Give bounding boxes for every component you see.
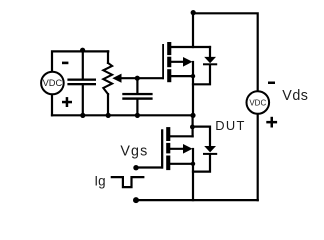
wire bottom rail xyxy=(136,199,258,201)
diode D2 leads xyxy=(193,127,210,146)
svg-text:Vds: Vds xyxy=(282,88,308,104)
transistor Q1 channel bar xyxy=(167,42,171,55)
transistor DUT gate plate xyxy=(161,130,163,169)
node Ig return dot xyxy=(133,197,139,203)
svg-text:Vgs: Vgs xyxy=(120,143,148,159)
transistor Q1 body arrow xyxy=(183,57,193,67)
junction dot bus / R1 xyxy=(106,113,111,118)
wire DUT drain vertical xyxy=(192,115,194,136)
resistor R1 (potentiometer body) xyxy=(103,63,112,94)
transistor Q1 gate plate xyxy=(162,44,164,79)
wire Vgs lead to DUT gate xyxy=(136,130,162,167)
wire Q1 body stub xyxy=(170,61,184,63)
diode D1 triangle xyxy=(204,57,216,63)
voltage source VDC1 xyxy=(41,72,64,95)
diode D2 triangle xyxy=(204,146,216,152)
wire Q1 source stub xyxy=(170,75,193,77)
svg-text:VDC: VDC xyxy=(249,98,266,107)
diode D1 leads xyxy=(209,47,211,57)
wire C2 bottom lead xyxy=(136,100,138,116)
junction dot DUT source stub xyxy=(191,162,195,166)
wire Q1 drain stub xyxy=(170,46,210,48)
label plus VDC2 xyxy=(266,121,277,124)
label minus VDC1 xyxy=(62,62,68,65)
wire C1 bottom lead xyxy=(82,85,84,115)
wire C1 top lead xyxy=(82,51,84,78)
junction dot DUT drain / D2 xyxy=(190,125,195,130)
wire mid bus (source of Q1 / drain of DUT) xyxy=(52,114,193,116)
junction dot top rail xyxy=(191,10,196,15)
wire Vds source bottom lead xyxy=(257,113,259,200)
transistor DUT body arrow xyxy=(183,144,193,154)
svg-text:Ig: Ig xyxy=(94,174,105,189)
capacitor C2 plates xyxy=(122,93,152,95)
wire VDC1 bottom lead xyxy=(51,94,53,115)
wire wiper to gate of Q1 xyxy=(121,77,163,79)
wiper arrow of R1 xyxy=(112,74,121,83)
junction dot top wire / C1 xyxy=(80,48,85,53)
wire VDC1 top lead and top wire xyxy=(52,51,108,71)
wire top rail xyxy=(193,13,258,92)
junction dot Q1 source stub xyxy=(191,74,195,78)
pulse waveform Ig xyxy=(112,177,144,187)
label plus VDC1 xyxy=(62,101,72,104)
wire Q1 source vertical xyxy=(192,62,194,115)
voltage source VDC2 (Vds supply) xyxy=(246,91,269,114)
wire R1 top lead xyxy=(107,51,109,63)
junction dot bus / C1 xyxy=(80,113,85,118)
capacitor C1 plates xyxy=(67,79,96,81)
wire C2 top lead xyxy=(136,78,138,93)
junction dot bus / C2 xyxy=(135,113,140,118)
wire DUT drain stub xyxy=(170,135,193,137)
transistor DUT channel bar xyxy=(166,127,170,141)
svg-text:DUT: DUT xyxy=(215,118,245,133)
wire R1 bottom lead xyxy=(107,94,109,115)
svg-text:VDC: VDC xyxy=(43,78,63,88)
diode D2 cathode bar xyxy=(203,153,217,155)
wire DUT source stub xyxy=(170,163,193,165)
diode D1 cathode bar xyxy=(203,63,217,65)
node Vgs terminal dot xyxy=(133,165,138,170)
wire DUT source vertical xyxy=(192,149,194,200)
junction dot wiper / C2 xyxy=(135,76,140,81)
wire DUT body stub xyxy=(170,148,184,150)
label minus VDC2 xyxy=(268,82,275,85)
junction dot bus / Q1 source xyxy=(190,113,195,118)
